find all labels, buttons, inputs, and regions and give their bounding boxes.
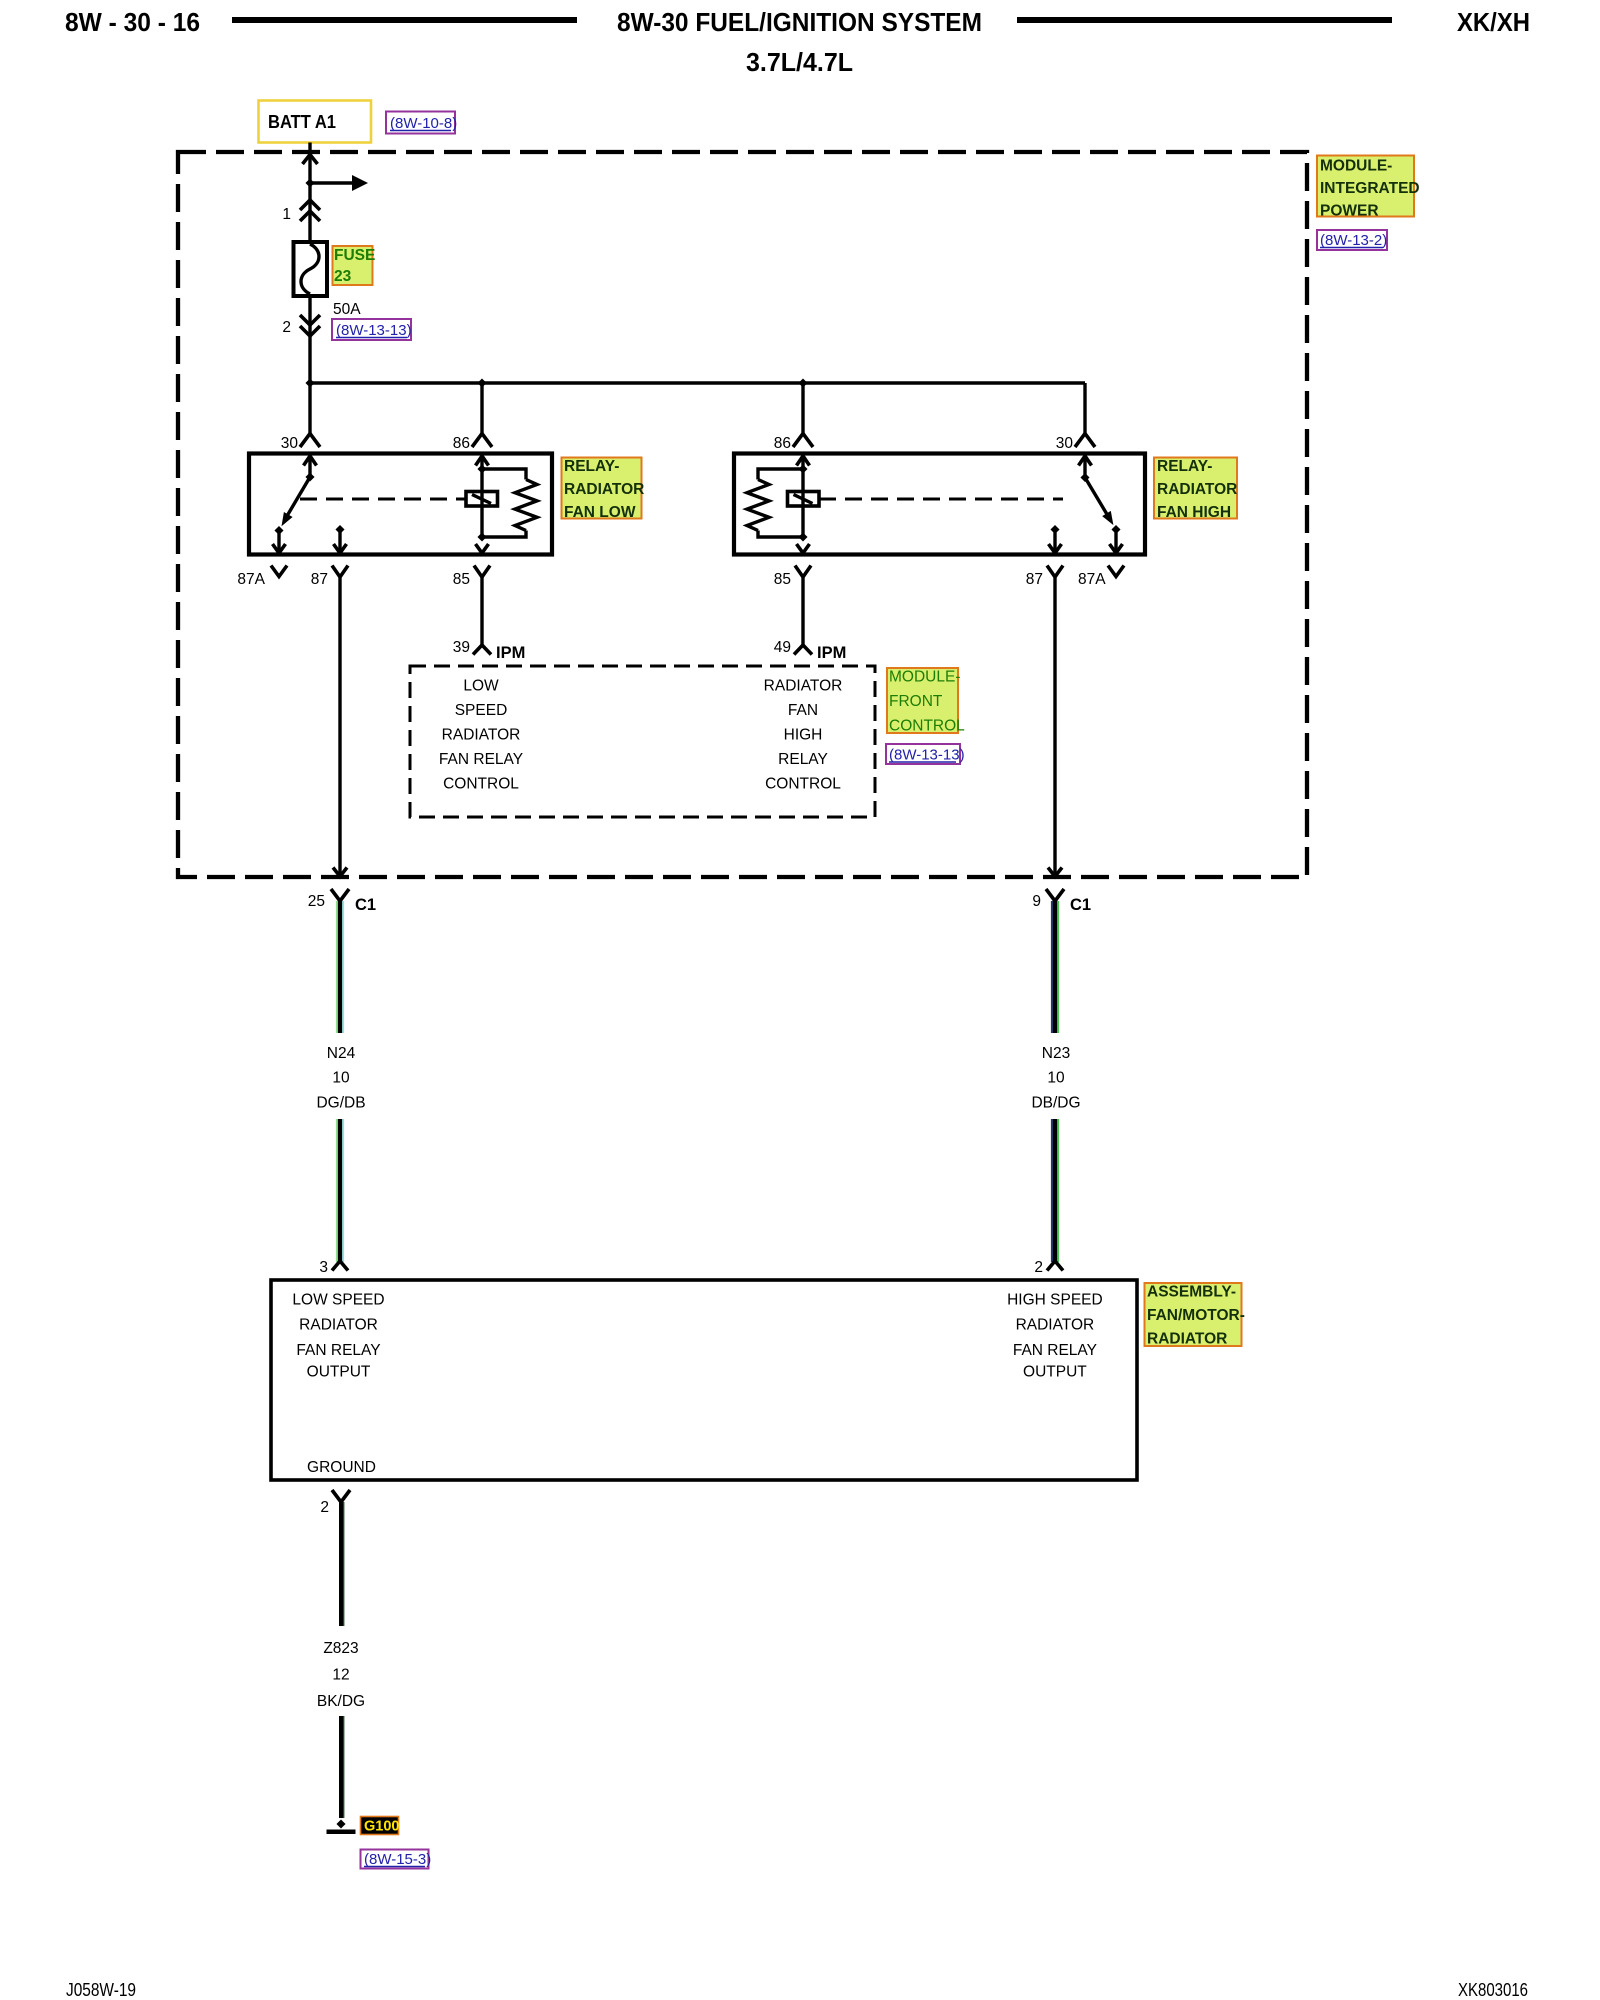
svg-text:FRONT: FRONT (889, 693, 943, 710)
svg-text:8W - 30 - 16: 8W - 30 - 16 (65, 7, 200, 37)
svg-text:9: 9 (1032, 893, 1041, 910)
svg-text:IPM: IPM (817, 644, 846, 662)
svg-text:BATT A1: BATT A1 (268, 112, 336, 132)
svg-text:OUTPUT: OUTPUT (1023, 1364, 1087, 1381)
svg-text:30: 30 (281, 435, 299, 452)
svg-text:87A: 87A (1078, 571, 1106, 588)
svg-text:FAN RELAY: FAN RELAY (1013, 1342, 1097, 1359)
svg-text:DG/DB: DG/DB (316, 1095, 365, 1112)
svg-text:BK/DG: BK/DG (317, 1693, 365, 1710)
svg-text:HIGH SPEED: HIGH SPEED (1007, 1292, 1103, 1309)
svg-text:HIGH: HIGH (784, 727, 823, 744)
svg-text:2: 2 (282, 319, 291, 336)
svg-text:GROUND: GROUND (307, 1459, 376, 1476)
svg-text:1: 1 (282, 206, 291, 223)
svg-text:FAN RELAY: FAN RELAY (439, 751, 523, 768)
svg-text:RADIATOR: RADIATOR (764, 678, 843, 695)
svg-text:86: 86 (453, 435, 470, 452)
svg-text:85: 85 (774, 571, 791, 588)
svg-text:87: 87 (311, 571, 328, 588)
svg-text:POWER: POWER (1320, 203, 1379, 220)
svg-text:MODULE-: MODULE- (889, 669, 960, 686)
svg-text:(8W-13-13): (8W-13-13) (336, 322, 412, 339)
svg-text:12: 12 (332, 1667, 349, 1684)
svg-text:3.7L/4.7L: 3.7L/4.7L (746, 47, 853, 77)
svg-text:(8W-13-13): (8W-13-13) (889, 747, 965, 764)
svg-text:87: 87 (1026, 571, 1043, 588)
svg-text:INTEGRATED: INTEGRATED (1320, 180, 1420, 197)
svg-text:RADIATOR: RADIATOR (1147, 1331, 1227, 1348)
svg-text:C1: C1 (1070, 896, 1091, 914)
svg-text:DB/DG: DB/DG (1031, 1095, 1080, 1112)
svg-text:RADIATOR: RADIATOR (1016, 1317, 1095, 1334)
svg-text:10: 10 (332, 1070, 350, 1087)
svg-text:LOW SPEED: LOW SPEED (292, 1292, 384, 1309)
svg-text:2: 2 (1034, 1259, 1043, 1276)
svg-text:(8W-10-8): (8W-10-8) (390, 115, 457, 132)
svg-text:30: 30 (1056, 435, 1074, 452)
svg-text:RELAY: RELAY (778, 751, 828, 768)
svg-text:MODULE-: MODULE- (1320, 158, 1392, 175)
svg-text:39: 39 (453, 639, 470, 656)
svg-text:G100: G100 (364, 1819, 399, 1835)
svg-text:25: 25 (308, 893, 325, 910)
svg-text:XK803016: XK803016 (1458, 1980, 1528, 2000)
svg-text:XK/XH: XK/XH (1457, 7, 1530, 37)
svg-text:86: 86 (774, 435, 791, 452)
svg-text:23: 23 (334, 268, 352, 285)
svg-text:(8W-15-3): (8W-15-3) (364, 1851, 431, 1868)
svg-text:8W-30 FUEL/IGNITION SYSTEM: 8W-30 FUEL/IGNITION SYSTEM (617, 7, 982, 37)
svg-text:SPEED: SPEED (455, 702, 508, 719)
svg-text:49: 49 (774, 639, 791, 656)
svg-text:LOW: LOW (463, 678, 499, 695)
svg-text:FAN: FAN (788, 702, 818, 719)
svg-text:RELAY-: RELAY- (564, 458, 619, 475)
svg-text:RADIATOR: RADIATOR (442, 727, 521, 744)
svg-text:N24: N24 (327, 1045, 356, 1062)
svg-text:RADIATOR: RADIATOR (299, 1317, 378, 1334)
svg-text:87A: 87A (237, 571, 265, 588)
svg-text:IPM: IPM (496, 644, 525, 662)
svg-text:3: 3 (319, 1259, 328, 1276)
svg-text:2: 2 (320, 1499, 329, 1516)
svg-text:CONTROL: CONTROL (765, 776, 841, 793)
svg-text:RADIATOR: RADIATOR (1157, 481, 1237, 498)
svg-text:(8W-13-2): (8W-13-2) (1320, 232, 1387, 249)
svg-text:RADIATOR: RADIATOR (564, 481, 644, 498)
svg-text:85: 85 (453, 571, 470, 588)
svg-text:OUTPUT: OUTPUT (307, 1364, 371, 1381)
svg-text:FAN HIGH: FAN HIGH (1157, 504, 1231, 521)
svg-text:FUSE: FUSE (334, 247, 375, 264)
svg-text:FAN RELAY: FAN RELAY (296, 1342, 380, 1359)
svg-text:ASSEMBLY-: ASSEMBLY- (1147, 1284, 1236, 1301)
svg-text:N23: N23 (1042, 1045, 1070, 1062)
svg-text:FAN/MOTOR-: FAN/MOTOR- (1147, 1307, 1245, 1324)
svg-text:10: 10 (1047, 1070, 1065, 1087)
svg-text:RELAY-: RELAY- (1157, 458, 1212, 475)
svg-text:CONTROL: CONTROL (889, 718, 965, 735)
svg-text:CONTROL: CONTROL (443, 776, 519, 793)
svg-text:FAN LOW: FAN LOW (564, 504, 636, 521)
svg-text:C1: C1 (355, 896, 376, 914)
svg-text:J058W-19: J058W-19 (66, 1980, 136, 2000)
svg-text:50A: 50A (333, 301, 361, 318)
svg-text:Z823: Z823 (323, 1640, 358, 1657)
